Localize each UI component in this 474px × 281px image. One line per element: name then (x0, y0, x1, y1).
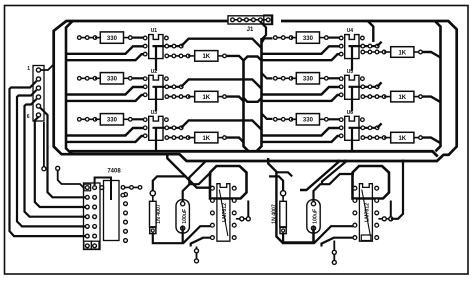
resistor 1K (U3 row) (188, 132, 223, 143)
pad U1 pin4 (165, 36, 169, 40)
node chain low U2 (165, 95, 190, 99)
node chain mid U6 (361, 126, 379, 130)
wire banner pour PSU2 (353, 166, 390, 199)
wire 330 to U4 pin1 (325, 36, 341, 40)
wire right input stub row3 (262, 114, 273, 119)
wire bundle v2 (17, 90, 85, 226)
node chain mid U2 (165, 85, 183, 89)
diode 1N4007 PSU1 (150, 196, 163, 227)
svg-text:U5: U5 (347, 69, 354, 75)
pad diode anode PSU1 (150, 191, 155, 196)
wire top bus branch to U4 (368, 21, 374, 42)
via pad A (42, 122, 46, 171)
resistor 330 (U4 row) (291, 32, 325, 43)
pad U2 pin4 (165, 77, 169, 81)
wire 330 to U1 pin1 (129, 36, 145, 40)
wire rail feed diag PSU2 (300, 160, 339, 191)
wire PSU2 gnd loop (268, 158, 313, 242)
svg-text:U1: U1 (151, 28, 158, 34)
IC outline 7408 (104, 181, 120, 241)
node chain mid U1 (165, 44, 183, 48)
pads U5 left pins (339, 77, 343, 97)
wire bundle v1 (10, 81, 86, 236)
wire U4 internal (349, 46, 378, 71)
wire gnd diag 1 PSU1 (183, 226, 211, 243)
resistor 330 (U2 row) (95, 73, 129, 84)
via pad B (56, 166, 84, 187)
label J1 (247, 27, 254, 33)
wire reg output up PSU2 (390, 201, 392, 217)
wire cap plus up PSU2 (314, 174, 355, 202)
wire U5 internal (349, 87, 378, 112)
diode 1N4007 PSU2 (272, 196, 287, 227)
node input chain U3 (78, 118, 97, 122)
wire banner pour PSU1 (210, 166, 247, 199)
node input chain U4 (274, 36, 293, 40)
wire bundle v4 (40, 108, 85, 198)
wire chainA stub U4 (377, 42, 381, 46)
node chain mid U3 (165, 126, 183, 130)
node chain mid U5 (361, 85, 379, 89)
node input chain U5 (274, 77, 293, 81)
wire rail to U2 pin2 (66, 87, 143, 95)
wire pin1 stub (40, 65, 53, 70)
wire diode up PSU1 (153, 176, 186, 190)
wire chainA stub U6 (377, 123, 381, 127)
board outline ground loop (54, 21, 457, 161)
wire U6 internal (349, 128, 378, 153)
node chain low U5 (361, 95, 386, 99)
label pin6 (27, 114, 30, 120)
pad 1K output U1 (223, 54, 227, 58)
transistor U3 (149, 110, 163, 141)
pad 1K output U2 (223, 95, 227, 99)
wire PSU2 loop top arm (276, 172, 292, 176)
wire rail feed diag b PSU1 (189, 160, 205, 184)
pads 7408 right column (124, 193, 128, 243)
pad diode anode PSU2 (281, 191, 286, 196)
svg-text:330: 330 (303, 77, 314, 83)
wire ground run PSU1 (153, 227, 183, 244)
wire PSU2 out to rail (391, 160, 403, 219)
node chain low U6 (361, 136, 386, 140)
label pin1 (27, 66, 30, 72)
svg-text:100uF: 100uF (313, 209, 319, 224)
svg-text:330: 330 (107, 77, 118, 83)
wire 1K to bus U6 (422, 138, 441, 144)
node chain low U1 (165, 54, 190, 58)
pads regulator PSU2 (353, 186, 379, 239)
svg-text:J1: J1 (247, 27, 254, 33)
svg-text:100uF: 100uF (182, 209, 188, 224)
wire J1 pin5 to centre bus (260, 22, 266, 40)
wire diode up PSU2 (269, 176, 283, 190)
wire rail to U4 pin2 (262, 46, 339, 54)
wire left edge bus (66, 21, 73, 154)
wire rail to U6 pin3 (262, 136, 339, 142)
wire ground run PSU2 (283, 227, 313, 244)
connector 6-pin header (33, 66, 44, 122)
svg-text:LM7812: LM7812 (222, 203, 228, 222)
transistor U5 (345, 69, 359, 100)
node input chain U1 (78, 36, 97, 40)
wire chainA up U3 (181, 120, 261, 129)
wire 330 to U6 pin1 (325, 118, 341, 122)
wire 7408 top loop (95, 178, 111, 201)
wire rail to U5 pin2 (262, 87, 339, 95)
svg-text:U4: U4 (347, 28, 354, 34)
pads regulator PSU1 (211, 186, 237, 239)
wire chainA stub U5 (377, 82, 381, 86)
pad 1K output U4 (419, 50, 423, 54)
wire bundle v5 (35, 117, 85, 208)
node bottom pads PSU1 (195, 247, 199, 263)
resistor 1K (U4 row) (384, 47, 419, 58)
svg-text:330: 330 (303, 36, 314, 42)
wire U2 internal (153, 87, 182, 112)
wire gnd diag 1 PSU2 (314, 226, 353, 243)
wire cap plus up PSU1 (183, 174, 212, 202)
resistor 330 (U5 row) (291, 73, 325, 84)
transistor U1 (149, 28, 163, 59)
svg-text:330: 330 (107, 36, 118, 42)
wire rail to U2 pin3 (66, 95, 143, 101)
resistor 1K (U1 row) (188, 51, 223, 62)
regulator LM7812 PSU2 (359, 184, 372, 242)
resistor 1K (U2 row) (188, 91, 223, 102)
svg-text:1K: 1K (398, 136, 406, 142)
wire reg output up PSU1 (247, 201, 249, 217)
svg-text:6: 6 (27, 114, 30, 120)
svg-text:1K: 1K (398, 95, 406, 101)
pads capacitor PSU2 (311, 202, 315, 231)
regulator LM7812 PSU1 (217, 184, 230, 242)
wire chainA up U1 (181, 39, 261, 48)
resistor 1K (U6 row) (384, 132, 419, 143)
via strip top right (100, 186, 104, 190)
node chain low U4 (361, 50, 386, 54)
wire bus mid tie (244, 98, 262, 102)
pad 1K output U6 (419, 136, 423, 140)
wire bus top tie (244, 57, 262, 61)
wire rail feed diag b PSU2 (322, 160, 346, 185)
wire 1K to bus U4 (422, 52, 441, 58)
pad reg bottom tab PSU2 (361, 235, 371, 241)
wire rail to U5 pin3 (262, 95, 339, 101)
wire right group collector bus (435, 21, 441, 151)
svg-text:U2: U2 (151, 69, 158, 75)
node chain 7408 right (121, 186, 142, 197)
wire 1K to bus U2 (226, 97, 244, 102)
node regulator output PSU2 (378, 217, 392, 221)
wire rail to U4 pin3 (262, 54, 339, 60)
pad diode cathode PSU1 (150, 227, 156, 234)
wire left collector bus (244, 60, 249, 151)
socket strip 7408 (84, 183, 101, 250)
wire right input stub row2 (262, 73, 273, 78)
connector J1 (228, 15, 273, 24)
svg-text:LM7812: LM7812 (365, 203, 371, 222)
pad 1K output U3 (223, 136, 227, 140)
svg-text:330: 330 (107, 118, 118, 124)
resistor 330 (U3 row) (95, 114, 129, 125)
wire rail to U6 pin2 (262, 128, 339, 136)
node chain low U3 (165, 136, 190, 140)
wire 330 to U5 pin1 (325, 77, 341, 81)
resistor 1K (U5 row) (384, 91, 419, 102)
svg-text:1N 4007: 1N 4007 (156, 204, 162, 224)
wire U1 internal (153, 46, 182, 71)
svg-text:1: 1 (27, 66, 30, 72)
wire gnd diag 2 PSU1 (191, 238, 211, 247)
svg-text:330: 330 (303, 118, 314, 124)
svg-text:1K: 1K (202, 136, 210, 142)
node input chain U2 (78, 77, 97, 81)
node regulator output PSU1 (236, 217, 250, 221)
node bottom pads PSU2 (332, 241, 336, 265)
svg-text:1K: 1K (398, 50, 406, 56)
wire rail to U3 pin2 (66, 128, 143, 136)
wire gnd diag 2 PSU2 (322, 238, 354, 247)
svg-text:U3: U3 (151, 110, 158, 116)
wire 1K to bus U5 (422, 97, 441, 103)
pad U6 pin4 (361, 118, 365, 122)
resistor 330 (U1 row) (95, 32, 129, 43)
pads capacitor PSU1 (181, 202, 185, 231)
capacitor 100uF PSU1 (176, 200, 189, 233)
wire right input stub row1 (262, 38, 273, 43)
wire rail feed diag PSU1 (167, 155, 210, 188)
svg-text:U6: U6 (347, 110, 354, 116)
transistor U6 (345, 110, 359, 141)
pad U5 pin4 (361, 77, 365, 81)
wire 1K to bus U1 (226, 56, 244, 61)
pads U3 left pins (143, 118, 147, 138)
wire chainA up U2 (181, 79, 261, 88)
wire rail to U1 pin3 (66, 54, 143, 60)
pad U4 pin4 (361, 36, 365, 40)
pads U1 left pins (143, 36, 147, 56)
wire 330 to U3 pin1 (129, 118, 145, 122)
transistor U2 (149, 69, 163, 100)
pads U4 left pins (339, 36, 343, 56)
svg-text:1K: 1K (202, 54, 210, 60)
wire 1K to bus U3 (226, 138, 244, 143)
node input chain U6 (274, 118, 293, 122)
svg-text:7408: 7408 (107, 169, 121, 175)
node chain mid U4 (361, 44, 379, 48)
resistor 330 (U6 row) (291, 114, 325, 125)
wire 330 to U2 pin1 (129, 77, 145, 81)
wire bottom power rail (70, 151, 438, 156)
wire rail to U1 pin2 (66, 46, 143, 54)
wire U3 internal (153, 128, 182, 153)
pad 1K output U5 (419, 95, 423, 99)
pad diode cathode PSU2 (280, 227, 286, 234)
transistor U4 (345, 28, 359, 59)
label 7408 (107, 169, 121, 175)
capacitor 100uF PSU2 (307, 200, 320, 233)
pads U6 left pins (339, 118, 343, 138)
pad U3 pin4 (165, 118, 169, 122)
pads U2 left pins (143, 77, 147, 97)
wire rail to U3 pin3 (66, 136, 143, 142)
svg-text:1K: 1K (202, 95, 210, 101)
wire bundle v3 (25, 99, 86, 217)
wire centre bus (256, 38, 261, 151)
